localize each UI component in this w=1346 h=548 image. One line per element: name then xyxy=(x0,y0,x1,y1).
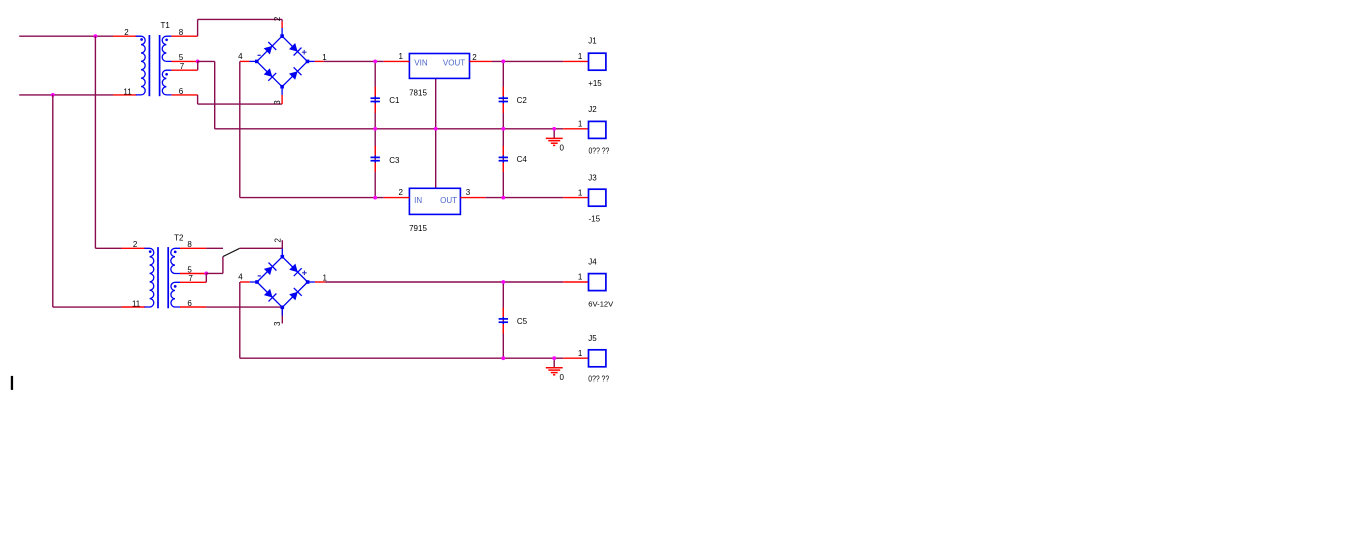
junction lower rail ground tap xyxy=(552,356,556,360)
svg-text:8: 8 xyxy=(179,28,184,37)
junction top rail C1 xyxy=(373,60,377,64)
svg-text:7: 7 xyxy=(180,62,185,71)
svg-text:8: 8 xyxy=(187,240,192,249)
wire mid rail 0V xyxy=(215,128,564,130)
bridge rectifier D1 pin stubs xyxy=(240,22,324,105)
transformer T2 xyxy=(144,247,180,308)
junction T1 center tap xyxy=(196,60,200,64)
svg-text:1: 1 xyxy=(578,52,583,61)
wire C1 C3 column xyxy=(374,61,376,197)
wire T1 center tap to mid rail xyxy=(198,61,215,128)
text cursor mark xyxy=(11,376,13,390)
svg-text:T1: T1 xyxy=(161,21,171,30)
svg-text:2: 2 xyxy=(133,240,138,249)
regulator U1 7815 xyxy=(409,54,469,98)
connector J5 labels xyxy=(588,334,609,384)
regulator U1 7815 gnd wire xyxy=(435,78,437,188)
svg-text:3: 3 xyxy=(273,321,282,326)
svg-text:2: 2 xyxy=(399,188,404,197)
connector J3 labels xyxy=(588,173,600,223)
junction bottom rail C3 xyxy=(373,196,377,200)
svg-text:C4: C4 xyxy=(517,155,528,164)
wire bridge D2 pin4 to lower rail xyxy=(239,282,241,358)
svg-text:OUT: OUT xyxy=(440,196,457,205)
svg-text:2: 2 xyxy=(124,28,129,37)
wire bottom rail -V xyxy=(240,197,563,199)
svg-text:11: 11 xyxy=(132,299,141,308)
transformer T1 labels xyxy=(123,21,184,96)
connector J1 xyxy=(563,52,606,70)
svg-text:VOUT: VOUT xyxy=(443,58,465,67)
junction mid rail ground tap xyxy=(552,127,556,131)
wire AC line L down to T2 pin 2 xyxy=(95,36,121,248)
connector J4 labels xyxy=(588,258,614,309)
wire diagonal to bridge D2 pin2 xyxy=(240,240,283,249)
bridge rectifier D1 pin labels xyxy=(238,16,327,105)
svg-text:C1: C1 xyxy=(389,96,400,105)
wire T2 pin8 stub end xyxy=(206,247,223,249)
wire top rail +V xyxy=(324,60,564,62)
connector J2 labels xyxy=(588,105,609,156)
wire C2 C4 column xyxy=(502,61,504,197)
ground 0V upper xyxy=(546,129,565,153)
wire T1 pin6 to bridge D1 pin3 xyxy=(198,95,283,104)
regulator U2 pin stubs xyxy=(384,197,485,199)
wire lower 0V rail xyxy=(240,357,563,359)
junction top rail C2 xyxy=(501,60,505,64)
regulator U2 pin numbers xyxy=(399,188,471,197)
bridge rectifier D2 xyxy=(250,249,315,316)
svg-text:6V-12V: 6V-12V xyxy=(588,299,614,308)
svg-text:2: 2 xyxy=(472,53,477,62)
junction mid rail C3 xyxy=(373,127,377,131)
transformer T1 pin stubs xyxy=(113,36,198,95)
svg-text:J1: J1 xyxy=(588,37,597,46)
svg-text:C2: C2 xyxy=(517,96,528,105)
svg-text:IN: IN xyxy=(414,196,422,205)
svg-text:7: 7 xyxy=(188,274,193,283)
svg-text:1: 1 xyxy=(399,52,404,61)
regulator U2 7915 xyxy=(409,188,460,233)
svg-text:J2: J2 xyxy=(588,105,597,114)
junction lower rail C5 xyxy=(501,356,505,360)
svg-text:3: 3 xyxy=(273,100,282,105)
connector J4 xyxy=(563,273,606,291)
svg-text:1: 1 xyxy=(322,53,327,62)
svg-text:6: 6 xyxy=(179,87,184,96)
junction AC-N node xyxy=(51,93,55,97)
wire AC line L to T1 pin 2 xyxy=(19,35,113,37)
svg-text:1: 1 xyxy=(578,349,583,358)
transformer T2 labels xyxy=(132,233,193,308)
svg-text:4: 4 xyxy=(238,273,243,282)
svg-text:1: 1 xyxy=(578,273,583,282)
svg-text:1: 1 xyxy=(578,188,583,197)
wire bridge D2 output rail xyxy=(325,281,563,283)
junction D2 rail C5 xyxy=(501,280,505,284)
wire bridge D1 pin4 to negative rail xyxy=(239,61,241,197)
capacitor C3 xyxy=(371,146,400,172)
capacitor C4 xyxy=(499,146,528,172)
svg-text:6: 6 xyxy=(187,299,192,308)
svg-text:VIN: VIN xyxy=(414,58,428,67)
svg-text:0: 0 xyxy=(560,143,565,152)
svg-text:0: 0 xyxy=(560,373,565,382)
wire T1 center tap link 5-7 xyxy=(197,61,199,70)
wire T1 pin8 to bridge D1 pin2 xyxy=(198,19,283,36)
svg-text:J4: J4 xyxy=(588,258,597,267)
wire T2 center tap link 5-7 xyxy=(205,273,207,282)
svg-text:7915: 7915 xyxy=(409,224,427,233)
wire T2 tap to diagonal xyxy=(206,257,223,274)
junction bottom rail C4 xyxy=(501,196,505,200)
svg-text:J5: J5 xyxy=(588,334,597,343)
wire bridge D2 pin3 hanging stub xyxy=(281,307,283,323)
svg-text:C5: C5 xyxy=(517,317,528,326)
bridge rectifier D1 xyxy=(250,28,315,95)
svg-text:3: 3 xyxy=(466,188,471,197)
capacitor C1 xyxy=(371,87,400,113)
junction mid rail reg gnd xyxy=(434,127,438,131)
svg-text:T2: T2 xyxy=(174,233,184,242)
junction mid rail C4 xyxy=(501,127,505,131)
regulator U1 pin numbers xyxy=(399,52,478,62)
svg-text:11: 11 xyxy=(123,87,132,96)
svg-text:J3: J3 xyxy=(588,173,597,182)
svg-text:-15: -15 xyxy=(589,215,601,224)
svg-text:C3: C3 xyxy=(389,156,400,165)
regulator U1 pin stubs xyxy=(384,60,492,62)
svg-text:1: 1 xyxy=(323,274,328,283)
connector J1 labels xyxy=(588,37,602,88)
junction AC-L node xyxy=(94,34,98,38)
svg-text:2: 2 xyxy=(273,16,282,21)
wire AC line N down to T2 pin 11 xyxy=(53,95,122,307)
junction T2 center tap xyxy=(204,272,208,276)
connector J2 xyxy=(563,120,606,139)
svg-text:2: 2 xyxy=(273,238,282,243)
svg-text:0?? ??: 0?? ?? xyxy=(589,147,610,156)
connector J3 xyxy=(563,188,606,206)
svg-text:0?? ??: 0?? ?? xyxy=(588,375,609,384)
wire AC line N to T1 pin 11 xyxy=(19,94,113,96)
capacitor C2 xyxy=(499,87,528,113)
svg-text:4: 4 xyxy=(238,52,243,61)
wire T2 pin6 to bridge D2 pin3 xyxy=(206,306,282,308)
svg-text:+15: +15 xyxy=(588,79,602,88)
ground 0V lower xyxy=(546,358,565,382)
wire diagonal black segment xyxy=(223,248,240,256)
bridge rectifier D2 pin labels xyxy=(238,238,327,327)
svg-text:1: 1 xyxy=(578,120,583,129)
capacitor C5 xyxy=(499,308,528,334)
transformer T2 pin stubs xyxy=(122,248,207,307)
transformer T1 xyxy=(136,35,172,96)
connector J5 xyxy=(563,349,606,367)
svg-text:7815: 7815 xyxy=(409,88,427,97)
bridge rectifier D2 pin stubs xyxy=(240,281,325,283)
wire C5 column xyxy=(502,282,504,358)
